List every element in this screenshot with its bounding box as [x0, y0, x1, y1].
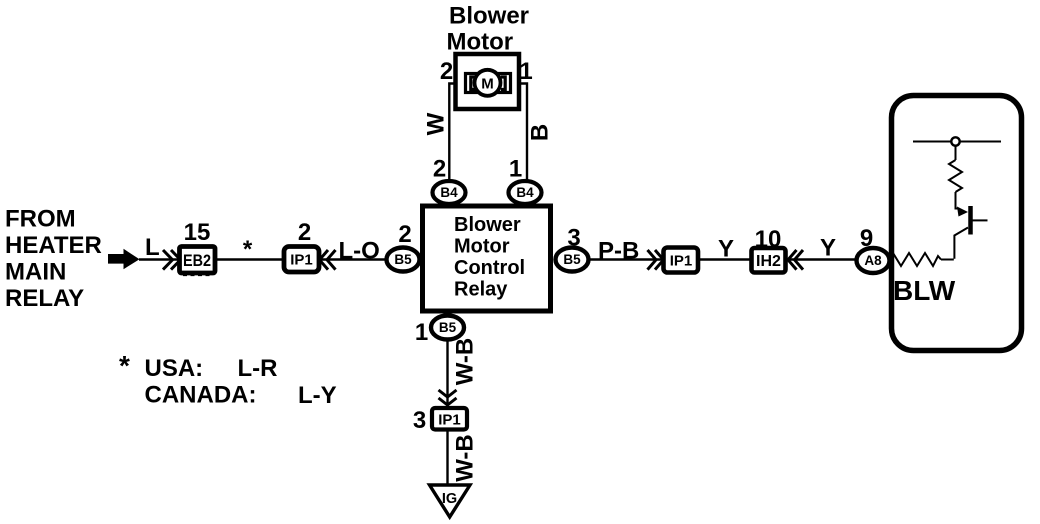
svg-text:Y: Y — [718, 236, 734, 263]
svg-text:W-B: W-B — [452, 338, 479, 386]
svg-text:IP1: IP1 — [438, 412, 461, 429]
svg-text:Blower: Blower — [454, 214, 521, 236]
svg-text:RELAY: RELAY — [5, 285, 84, 312]
svg-text:P-B: P-B — [598, 238, 639, 265]
svg-text:W-B: W-B — [452, 434, 479, 482]
svg-text:B5: B5 — [563, 252, 581, 267]
svg-text:*: * — [119, 350, 130, 381]
svg-text:B5: B5 — [394, 252, 412, 267]
svg-text:W: W — [423, 112, 450, 135]
svg-text:Y: Y — [820, 235, 836, 262]
svg-text:B: B — [527, 124, 554, 141]
svg-text:A8: A8 — [864, 253, 882, 268]
svg-text:L: L — [145, 234, 160, 261]
svg-text:2: 2 — [298, 219, 311, 246]
svg-text:M: M — [481, 75, 494, 92]
svg-text:EB2: EB2 — [183, 251, 211, 270]
svg-text:IH2: IH2 — [756, 253, 781, 270]
svg-text:1: 1 — [519, 58, 532, 85]
svg-text:3: 3 — [413, 407, 426, 434]
svg-text:IP1: IP1 — [670, 253, 693, 270]
svg-text:Motor: Motor — [454, 236, 510, 258]
svg-text:CANADA:: CANADA: — [145, 382, 257, 409]
svg-text:L-R: L-R — [238, 355, 278, 382]
svg-text:Relay: Relay — [454, 279, 508, 301]
svg-text:L-O: L-O — [339, 238, 380, 265]
svg-text:MAIN: MAIN — [5, 259, 66, 286]
svg-text:1: 1 — [415, 319, 428, 346]
svg-text:Blower: Blower — [449, 3, 529, 30]
svg-text:Control: Control — [454, 257, 525, 279]
svg-text:HEATER: HEATER — [5, 232, 102, 259]
svg-text:2: 2 — [440, 58, 453, 85]
svg-text:IG: IG — [442, 491, 457, 507]
svg-text:B4: B4 — [440, 185, 458, 200]
svg-text:1: 1 — [509, 156, 522, 183]
svg-text:B5: B5 — [439, 320, 457, 335]
svg-text:BLW: BLW — [893, 275, 956, 306]
svg-text:2: 2 — [398, 221, 411, 248]
svg-text:Motor: Motor — [447, 29, 514, 56]
svg-text:USA:: USA: — [145, 355, 204, 382]
svg-text:15: 15 — [184, 219, 211, 246]
svg-text:2: 2 — [433, 156, 446, 183]
svg-text:B4: B4 — [516, 185, 534, 200]
svg-text:IP1: IP1 — [290, 252, 313, 269]
svg-text:L-Y: L-Y — [298, 382, 337, 409]
svg-text:FROM: FROM — [5, 206, 76, 233]
svg-text:*: * — [243, 236, 253, 263]
